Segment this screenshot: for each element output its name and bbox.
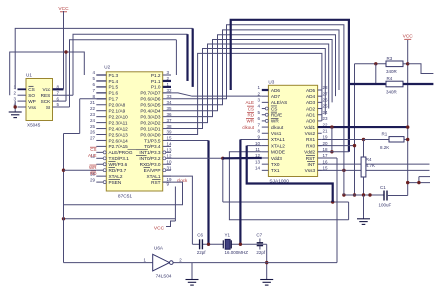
svg-text:clkout: clkout	[242, 125, 255, 130]
svg-text:100uF: 100uF	[379, 203, 392, 208]
svg-text:P0.6/AD6: P0.6/AD6	[140, 97, 160, 102]
svg-text:clkout: clkout	[271, 125, 284, 130]
resistor R3	[355, 56, 408, 74]
svg-text:XTAL1: XTAL1	[271, 137, 285, 142]
junction C7 ground	[265, 261, 268, 264]
svg-text:24: 24	[90, 118, 96, 123]
svg-text:Vss3: Vss3	[305, 168, 316, 173]
svg-text:P2.6/A14: P2.6/A14	[109, 138, 129, 143]
chip U2 left pin stubs	[90, 70, 106, 182]
svg-text:Vss1: Vss1	[271, 131, 282, 136]
svg-text:RD: RD	[90, 171, 97, 176]
wire RX1 row	[322, 138, 364, 140]
svg-text:4.7K: 4.7K	[366, 163, 375, 168]
wire SI rail	[70, 40, 177, 107]
svg-text:T0/P3.4: T0/P3.4	[144, 144, 161, 149]
svg-text:R4: R4	[387, 76, 393, 81]
svg-text:340R: 340R	[386, 89, 398, 94]
junction R3 rail	[406, 62, 409, 65]
svg-text:P1.2: P1.2	[151, 73, 161, 78]
svg-text:31: 31	[167, 165, 173, 170]
svg-text:XTAL1: XTAL1	[147, 174, 161, 179]
svg-text:26: 26	[90, 130, 96, 135]
svg-text:RXD/P3.0: RXD/P3.0	[140, 162, 161, 167]
svg-text:P2.2/A10: P2.2/A10	[109, 114, 129, 119]
wire crystal net	[192, 243, 266, 245]
svg-text:U2: U2	[104, 64, 110, 69]
svg-text:WR: WR	[247, 119, 255, 124]
svg-text:P0.4/AD4: P0.4/AD4	[140, 109, 160, 114]
wire xtal return	[64, 187, 176, 222]
wire RES rail	[73, 34, 188, 95]
svg-text:21: 21	[323, 128, 329, 133]
svg-text:P1.6: P1.6	[109, 91, 119, 96]
resistor R4b 4.7K	[361, 139, 375, 195]
svg-text:EA/VPP: EA/VPP	[144, 168, 161, 173]
svg-text:13: 13	[167, 148, 173, 153]
wire RX0 to R3	[318, 64, 355, 195]
wire Vdd2 row	[322, 151, 349, 153]
chip U3 pin bubbles	[265, 107, 268, 122]
svg-text:Vdd3: Vdd3	[271, 156, 282, 161]
chip U2 87C51 body	[104, 64, 162, 199]
svg-text:21: 21	[90, 100, 96, 105]
wire CAN stub upper	[419, 177, 430, 183]
wire SJA XTAL2 link	[247, 146, 333, 202]
svg-text:87C51: 87C51	[118, 193, 132, 199]
svg-text:Vss2: Vss2	[305, 131, 316, 136]
svg-text:T1/P3.5: T1/P3.5	[144, 138, 161, 143]
svg-text:C7: C7	[256, 233, 262, 238]
svg-text:Vdd1: Vdd1	[304, 125, 315, 130]
svg-text:AD1: AD1	[306, 113, 316, 118]
wire AD0-AD5 bus loops	[171, 30, 339, 135]
chip U1 pin labels	[28, 86, 51, 110]
chip U3 right pin stubs	[318, 85, 328, 170]
net label ALE	[88, 153, 97, 158]
svg-text:13: 13	[255, 159, 261, 164]
svg-text:RX1: RX1	[306, 137, 316, 142]
svg-text:AD7: AD7	[271, 94, 281, 99]
wire Vdd3 bold link	[223, 157, 262, 160]
chip U3 SJA1000 body	[268, 79, 317, 184]
wire SO rail	[10, 52, 85, 95]
svg-text:SO: SO	[28, 93, 35, 98]
wire R3 right step	[408, 64, 434, 74]
junction gnd-343	[342, 193, 345, 196]
net label RD	[90, 171, 97, 176]
svg-text:P2.0/A8: P2.0/A8	[109, 103, 126, 108]
svg-text:TX1: TX1	[271, 168, 280, 173]
junction Vss3-vert	[342, 169, 345, 172]
svg-text:ALE/AS: ALE/AS	[271, 100, 287, 105]
svg-text:Vss: Vss	[28, 105, 36, 110]
junction R3 left	[374, 62, 377, 65]
svg-text:38: 38	[167, 124, 173, 129]
wire P1.2 vertical	[175, 40, 177, 75]
svg-text:16.000MHZ: 16.000MHZ	[225, 250, 249, 255]
wire AD6 loop	[171, 25, 344, 140]
power VCC right	[403, 34, 414, 196]
chip U1 X5045 body	[26, 73, 53, 128]
svg-text:INT0/P3.2: INT0/P3.2	[139, 156, 160, 161]
svg-text:11: 11	[255, 147, 260, 152]
svg-text:RD/E: RD/E	[271, 113, 282, 118]
wire U6A output	[173, 257, 337, 262]
resistor R4	[349, 76, 434, 94]
svg-text:37: 37	[167, 118, 173, 123]
svg-text:RES: RES	[41, 93, 51, 98]
svg-text:25: 25	[90, 124, 96, 129]
svg-text:29: 29	[90, 177, 96, 182]
junction stub rail	[406, 181, 409, 184]
wire T1 row to crystal	[171, 139, 209, 141]
svg-text:15: 15	[167, 136, 173, 141]
wire SCK vertical	[65, 52, 67, 101]
svg-text:Y1: Y1	[225, 233, 231, 238]
svg-text:TX0: TX0	[271, 162, 280, 167]
svg-text:XTAL2: XTAL2	[109, 174, 123, 179]
net label WR	[89, 165, 97, 170]
svg-text:R3: R3	[387, 56, 393, 61]
wire MODE link	[229, 152, 348, 220]
svg-text:TXD/P3.1: TXD/P3.1	[109, 156, 130, 161]
capacitor C6	[197, 233, 207, 255]
ground crystal left	[186, 280, 199, 286]
svg-text:C6: C6	[197, 233, 203, 238]
chip U3 pin labels	[271, 88, 316, 173]
svg-text:CS: CS	[248, 106, 254, 111]
svg-text:MODE: MODE	[271, 150, 285, 155]
svg-text:340R: 340R	[386, 69, 398, 74]
wire P1.7 hook	[64, 99, 97, 134]
wire crystal left vertical	[207, 140, 209, 244]
gate U6A 74LS04	[153, 245, 173, 278]
junction Y1-right	[239, 243, 242, 246]
wire CAN stub lower	[408, 182, 430, 184]
net label CS (A15)	[90, 147, 97, 152]
wire rail24 vert lower	[343, 139, 345, 195]
svg-text:23: 23	[90, 112, 96, 117]
chip U1 pin stubs	[13, 85, 73, 108]
svg-text:P1.1: P1.1	[151, 79, 161, 84]
chip U2 right pin stubs	[163, 70, 172, 187]
wire clock net	[163, 176, 193, 244]
crystal Y1	[223, 233, 248, 255]
chip U2 pin labels	[109, 73, 161, 185]
chip U3 left pin stubs	[255, 85, 268, 170]
svg-text:10: 10	[255, 141, 261, 146]
svg-text:R1: R1	[382, 131, 388, 136]
svg-text:36: 36	[167, 112, 173, 117]
svg-text:AD6: AD6	[271, 88, 281, 93]
svg-text:P1.5: P1.5	[109, 85, 119, 90]
svg-text:VCC: VCC	[154, 225, 165, 231]
junction RX0 rail	[353, 193, 356, 196]
svg-text:P0.1/AD1: P0.1/AD1	[140, 126, 160, 131]
net label ALE (U3)	[245, 100, 254, 105]
svg-text:CS: CS	[28, 87, 35, 92]
svg-text:VCC: VCC	[403, 34, 414, 40]
svg-text:INT1/P3.3: INT1/P3.3	[139, 150, 160, 155]
svg-text:ALE: ALE	[88, 153, 97, 158]
svg-text:34: 34	[167, 100, 173, 105]
junction gnd-364	[362, 193, 365, 196]
power VCC mid	[154, 221, 175, 231]
svg-text:RD: RD	[248, 113, 255, 118]
svg-text:39: 39	[167, 130, 173, 135]
svg-text:10: 10	[167, 159, 173, 164]
wire P1.0 vertical	[192, 28, 194, 87]
junction RX0	[353, 144, 356, 147]
svg-text:SI: SI	[46, 105, 50, 110]
svg-text:P1.0: P1.0	[151, 85, 161, 90]
svg-text:22pf: 22pf	[197, 250, 207, 255]
junction Vdd1-a	[330, 125, 333, 128]
junction R2 top	[362, 138, 365, 141]
svg-text:P0.5/AD5: P0.5/AD5	[140, 103, 160, 108]
svg-text:Vdd2: Vdd2	[304, 150, 315, 155]
svg-text:22pf: 22pf	[256, 250, 266, 255]
svg-text:WR: WR	[271, 119, 279, 124]
junction C6-right	[207, 243, 210, 246]
junction Vdd2	[330, 150, 333, 153]
wire X5045 WP to Vss	[14, 101, 16, 112]
net label WR (U3)	[246, 119, 255, 124]
svg-text:ALE/PROG: ALE/PROG	[109, 150, 133, 155]
wire CS rail	[15, 28, 193, 89]
junction xtal-left	[62, 217, 65, 220]
junction R1 rail	[406, 138, 409, 141]
svg-text:AD4: AD4	[306, 94, 316, 99]
svg-text:CS: CS	[271, 106, 278, 111]
wire ground drop	[363, 195, 365, 219]
wire INT row long	[322, 163, 430, 165]
svg-text:17: 17	[323, 153, 329, 158]
wire Vss3 row	[318, 169, 430, 171]
svg-text:P1.7: P1.7	[109, 97, 119, 102]
wire RD row extension	[64, 169, 97, 171]
svg-text:P0.7/AD7: P0.7/AD7	[140, 91, 160, 96]
junction SCK on SO rail	[64, 50, 67, 53]
svg-text:AD0: AD0	[306, 119, 316, 124]
svg-text:33: 33	[167, 94, 173, 99]
svg-text:12: 12	[167, 154, 173, 159]
wire P1.1 vertical	[186, 34, 188, 81]
svg-text:RST: RST	[151, 180, 161, 185]
svg-text:AD2: AD2	[306, 106, 316, 111]
svg-text:RD/P3.7: RD/P3.7	[109, 168, 127, 173]
svg-text:WR: WR	[89, 165, 97, 170]
svg-text:XTAL2: XTAL2	[271, 143, 285, 148]
svg-text:P2.4/A12: P2.4/A12	[109, 126, 129, 131]
capacitor C1	[379, 185, 408, 208]
wire INT0 vert down	[222, 158, 224, 202]
wire ground rail	[344, 194, 384, 196]
wire Vdd1 to VCC rail	[318, 126, 408, 128]
svg-text:P1.3: P1.3	[109, 73, 119, 78]
wire RST net	[64, 182, 183, 205]
svg-text:32: 32	[167, 88, 173, 93]
capacitor C7	[256, 233, 266, 255]
wire SJA pin1 loop	[231, 20, 349, 152]
svg-text:AD5: AD5	[306, 88, 316, 93]
svg-text:CS: CS	[90, 147, 96, 152]
junction bold-h202	[331, 200, 334, 203]
svg-text:P2.3/A11: P2.3/A11	[109, 120, 128, 125]
power VCC top-left	[58, 6, 69, 89]
svg-text:16: 16	[323, 159, 329, 164]
svg-text:74LS04: 74LS04	[156, 274, 172, 279]
svg-text:RST: RST	[306, 156, 316, 161]
svg-text:R4: R4	[366, 157, 372, 162]
svg-text:SCK: SCK	[41, 99, 52, 104]
net label clock	[177, 178, 188, 183]
junction X5045 Vss	[14, 105, 17, 108]
ground crystal right	[260, 280, 273, 286]
wire AD7 row	[163, 93, 262, 96]
junction stub mid	[417, 181, 420, 184]
wire Vdd1-Vdd2 vertical	[331, 127, 333, 152]
svg-text:ALE: ALE	[245, 100, 254, 105]
svg-text:P0.2/AD2: P0.2/AD2	[140, 120, 160, 125]
svg-text:X5045: X5045	[27, 123, 41, 128]
ground X5045	[9, 112, 22, 118]
wire RST riser	[318, 158, 337, 263]
junction Vdd1-rail	[406, 125, 409, 128]
wire SJA XTAL1 link	[240, 139, 261, 244]
junction gnd-370	[368, 193, 371, 196]
svg-text:20: 20	[323, 141, 329, 146]
svg-text:15: 15	[323, 166, 329, 171]
svg-text:Vcc: Vcc	[42, 87, 50, 92]
net label clkout (U3)	[242, 125, 255, 130]
wire R3 interlink vertical	[375, 64, 377, 84]
svg-text:P2.5/A13: P2.5/A13	[109, 132, 129, 137]
wire left vertical to U6A	[63, 134, 65, 263]
svg-text:27: 27	[90, 136, 96, 141]
wire INT0 row	[171, 157, 223, 159]
svg-text:AD3: AD3	[306, 100, 316, 105]
svg-text:PSEN: PSEN	[109, 180, 122, 185]
svg-text:18: 18	[323, 147, 329, 152]
junction INT0-Vdd3	[221, 157, 224, 160]
wire U6A input	[64, 257, 153, 262]
wire C7 corner	[266, 244, 268, 279]
svg-text:22: 22	[90, 106, 96, 111]
svg-text:U3: U3	[268, 79, 274, 84]
chip U2 pin bubbles	[103, 151, 166, 184]
wire zigzag vert	[348, 202, 350, 220]
svg-text:19: 19	[323, 135, 329, 140]
svg-text:INT: INT	[308, 162, 316, 167]
svg-text:14: 14	[167, 142, 173, 147]
svg-text:14: 14	[255, 166, 261, 171]
svg-text:P2.1/A9: P2.1/A9	[109, 109, 126, 114]
ground right	[357, 219, 370, 225]
junction RD row	[62, 169, 65, 172]
wire ground riser left	[191, 263, 193, 280]
svg-text:P0.3/AD3: P0.3/AD3	[140, 114, 160, 119]
net label CS (U3)	[247, 106, 254, 111]
svg-text:P1.4: P1.4	[109, 79, 119, 84]
resistor R1	[364, 131, 408, 150]
svg-text:U1: U1	[26, 73, 32, 78]
svg-text:RX0: RX0	[306, 143, 316, 148]
svg-text:WP: WP	[28, 99, 36, 104]
svg-text:C1: C1	[380, 185, 386, 190]
svg-text:35: 35	[167, 106, 173, 111]
svg-text:U6A: U6A	[154, 245, 164, 250]
svg-text:23: 23	[323, 116, 329, 121]
svg-text:P0.0/AD0: P0.0/AD0	[140, 132, 160, 137]
net label RD (U3)	[247, 112, 255, 117]
svg-text:8.2K: 8.2K	[380, 145, 389, 150]
svg-text:WR/P3.6: WR/P3.6	[109, 162, 128, 167]
wire h202	[223, 201, 349, 203]
svg-text:P2.7/A15: P2.7/A15	[109, 144, 129, 149]
